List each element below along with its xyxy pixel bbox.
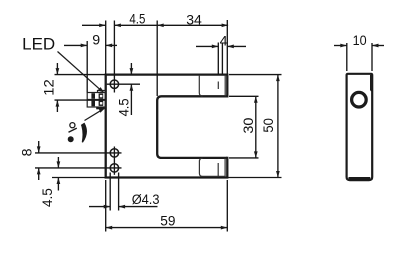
light/dark symbol: open circle <box>70 123 75 128</box>
hole H1 (top) <box>110 80 118 88</box>
LED leader <box>58 52 102 91</box>
dim 4.5 (top left) line <box>82 24 157 26</box>
svg-text:4: 4 <box>220 34 228 50</box>
svg-text:30: 30 <box>241 117 257 133</box>
dim 9 line <box>64 44 117 46</box>
svg-text:4.5: 4.5 <box>40 188 56 207</box>
hole H2 (lower upper) <box>110 149 118 157</box>
dim 4.5 (bottom left) line <box>57 157 59 191</box>
light/dark symbol: slash <box>69 128 77 132</box>
light/dark symbol: filled circle <box>68 136 74 142</box>
dim 59 extension lines <box>106 180 228 232</box>
dim 59 line <box>106 227 228 229</box>
side view body <box>347 74 373 180</box>
slot (U opening) <box>157 96 227 158</box>
dim 4.5 bl arrows <box>57 161 61 168</box>
dim 8 line <box>38 141 40 180</box>
dim 10 extension lines <box>347 43 372 71</box>
LED connector block <box>87 93 106 108</box>
dim 50 line <box>277 75 279 178</box>
dim 10 arrows <box>340 44 347 48</box>
lower optical window <box>199 158 225 176</box>
dim 59 arrows <box>106 226 113 230</box>
svg-text:9: 9 <box>92 33 100 49</box>
svg-text:12: 12 <box>42 79 58 96</box>
side view step line <box>371 75 372 91</box>
dim 8 arrows <box>37 146 41 153</box>
dim 4.5 arrows <box>99 23 106 27</box>
svg-text:4.5: 4.5 <box>117 98 133 116</box>
bottom edge extension line <box>52 177 282 179</box>
dim 9 arrows <box>81 44 88 48</box>
body outline (front view) <box>106 75 228 178</box>
light/dark leader arrowhead <box>99 108 106 113</box>
dim 34 line <box>157 24 228 26</box>
svg-text:8: 8 <box>19 148 35 156</box>
dim 4 line <box>196 45 246 47</box>
hole H3 (lower bottom) <box>110 164 118 172</box>
slot extension lines right <box>229 96 259 158</box>
dia 4.3 dim line <box>89 206 158 208</box>
svg-text:34: 34 <box>186 12 202 28</box>
LED leader arrowhead <box>98 87 105 93</box>
svg-text:Ø4.3: Ø4.3 <box>132 192 160 208</box>
dim 4.5 (hole vertical) line <box>130 63 132 115</box>
LED connector block top step <box>98 91 106 93</box>
dim 12 line <box>56 63 58 112</box>
side view ring <box>351 91 368 108</box>
dim 4 arrows <box>212 45 219 49</box>
extension lines top <box>87 20 227 96</box>
dim 30 line <box>255 96 257 158</box>
dim 10 line <box>334 45 384 47</box>
hole H1 crosshair <box>107 21 140 93</box>
top/bottom edge extensions right <box>229 74 282 76</box>
dim 34 arrows <box>157 23 164 27</box>
svg-text:LED: LED <box>22 36 55 54</box>
svg-text:4.5: 4.5 <box>129 11 145 27</box>
upper optical window <box>199 76 225 97</box>
svg-text:50: 50 <box>261 118 277 133</box>
dia 4.3 arrows <box>104 205 111 209</box>
lower holes crosshair + extension lines <box>35 147 122 175</box>
svg-text:10: 10 <box>353 33 367 49</box>
arrows <box>130 68 134 75</box>
dia 4.3 extension lines <box>110 173 118 211</box>
light/dark leader <box>85 109 104 120</box>
dim 50 arrows <box>276 75 280 82</box>
svg-text:59: 59 <box>160 214 175 230</box>
dim 12 arrows <box>56 68 60 75</box>
light/dark symbol: crescent arc <box>82 124 87 143</box>
dim 30 arrows <box>254 96 258 103</box>
dim 12 extension lines <box>55 75 106 101</box>
